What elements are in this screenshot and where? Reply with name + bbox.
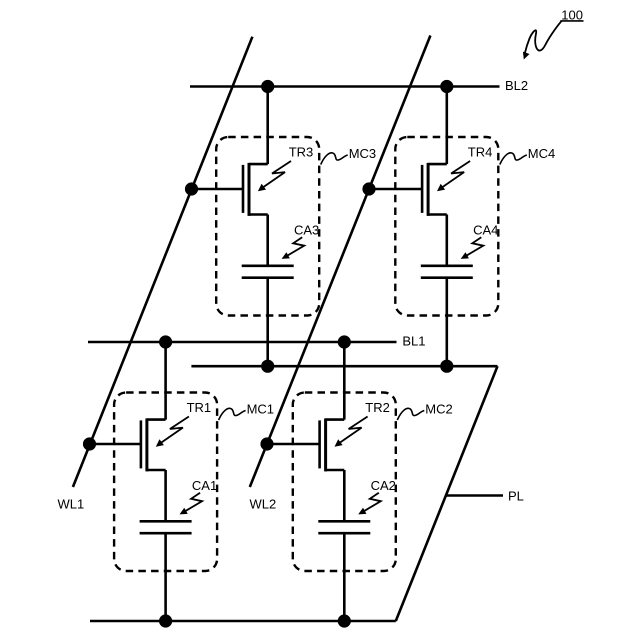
wire TR2 source to CA2 — [343, 470, 346, 521]
bit line BL1 — [88, 341, 397, 344]
capacitor CA3 — [242, 266, 294, 278]
svg-text:MC1: MC1 — [247, 402, 274, 417]
wire CA4 to PL — [445, 278, 448, 367]
svg-text:100: 100 — [561, 7, 583, 22]
svg-text:TR1: TR1 — [187, 400, 212, 415]
leader arrow CA3 — [282, 237, 305, 259]
wire WL2 to TR4 gate — [369, 188, 422, 191]
squiggle connector MC1 label to cell boundary — [219, 408, 246, 420]
transistor TR4 — [422, 163, 447, 216]
squiggle connector MC2 label to cell boundary — [397, 408, 424, 420]
junction dot on PL at CA3 — [261, 360, 274, 373]
svg-text:TR4: TR4 — [468, 145, 493, 160]
plate line PL top segment — [191, 365, 497, 368]
leader arrow TR3 — [258, 161, 291, 191]
junction dot on BL2 at TR3 drain — [261, 80, 274, 93]
svg-text:CA3: CA3 — [294, 222, 319, 237]
wire TR4 source to CA4 — [445, 215, 448, 266]
transistor TR1 — [141, 418, 166, 471]
leader arrow TR2 — [335, 417, 368, 447]
svg-text:TR2: TR2 — [365, 400, 390, 415]
junction dot on BL1 at TR1 drain — [159, 335, 172, 348]
svg-text:CA1: CA1 — [192, 478, 217, 493]
junction dot on BL2 at TR4 drain — [440, 80, 453, 93]
svg-text:TR3: TR3 — [289, 145, 314, 160]
svg-text:WL2: WL2 — [250, 497, 277, 512]
junction dot on BL1 at TR2 drain — [338, 335, 351, 348]
word line WL2 — [250, 36, 431, 488]
svg-text:BL1: BL1 — [402, 334, 425, 349]
leader arrow from 100 to array — [523, 21, 562, 60]
wire WL1 to TR1 gate — [90, 443, 141, 446]
svg-text:WL1: WL1 — [58, 497, 85, 512]
junction dot on WL1 at TR1 gate — [83, 437, 96, 450]
PL label lead wire — [446, 494, 503, 496]
wire TR1 source to CA1 — [164, 470, 167, 521]
transistor TR3 — [243, 163, 268, 216]
memory cell MC4 dashed boundary — [395, 137, 498, 316]
svg-text:BL2: BL2 — [505, 78, 528, 93]
wire BL1 to TR1 drain — [164, 342, 167, 420]
wire CA2 to PL — [343, 533, 346, 621]
capacitor CA1 — [140, 521, 192, 533]
capacitor CA2 — [318, 521, 370, 533]
leader arrow CA4 — [461, 237, 484, 259]
word line WL1 — [73, 37, 253, 487]
leader arrow CA2 — [358, 493, 381, 515]
transistor TR2 — [320, 418, 345, 471]
junction dot on PL at CA1 — [159, 614, 172, 627]
junction dot on WL2 at TR2 gate — [260, 437, 273, 450]
wire TR3 source to CA3 — [266, 215, 269, 266]
junction dot on WL1 at TR3 gate — [185, 182, 198, 195]
svg-text:CA4: CA4 — [473, 222, 498, 237]
wire WL1 to TR3 gate — [192, 188, 244, 191]
junction dot on WL2 at TR4 gate — [362, 182, 375, 195]
svg-text:PL: PL — [508, 489, 524, 504]
wire BL2 to TR3 drain — [266, 87, 269, 165]
svg-text:MC4: MC4 — [528, 146, 555, 161]
squiggle connector MC4 label to cell boundary — [500, 153, 527, 165]
svg-text:MC3: MC3 — [349, 146, 376, 161]
squiggle connector MC3 label to cell boundary — [321, 153, 348, 165]
reference numeral 100 (underlined) — [560, 7, 583, 22]
svg-text:CA2: CA2 — [371, 478, 396, 493]
memory cell MC1 dashed boundary — [114, 393, 217, 572]
leader arrow CA1 — [180, 493, 203, 515]
wire BL2 to TR4 drain — [445, 87, 448, 165]
memory cell MC2 dashed boundary — [293, 393, 396, 572]
wire WL2 to TR2 gate — [267, 443, 320, 446]
wire CA3 to PL — [266, 278, 269, 367]
wire CA1 to PL — [164, 533, 167, 621]
wire BL1 to TR2 drain — [343, 342, 346, 420]
leader arrow TR4 — [437, 161, 470, 191]
plate line PL right diagonal segment — [396, 366, 498, 621]
plate line PL bottom segment — [90, 620, 396, 623]
junction dot on PL at CA4 — [440, 360, 453, 373]
leader arrow TR1 — [156, 417, 189, 447]
bit line BL2 — [190, 85, 500, 88]
svg-text:MC2: MC2 — [425, 402, 452, 417]
junction dot on PL at CA2 — [338, 614, 351, 627]
memory cell MC3 dashed boundary — [216, 137, 319, 316]
capacitor CA4 — [421, 266, 473, 278]
